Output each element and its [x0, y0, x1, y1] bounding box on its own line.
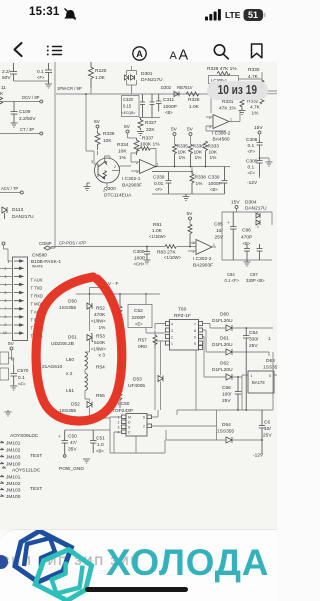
svg-text:15V: 15V — [231, 200, 240, 206]
capacitor C51 1.0 <B> — [90, 430, 105, 454]
power -12V terminal — [253, 453, 264, 459]
svg-text:M: M — [128, 416, 131, 420]
svg-text:1SS355: 1SS355 — [59, 305, 76, 311]
wire op-amp feedback right — [203, 72, 262, 113]
svg-text:C86: C86 — [242, 228, 251, 234]
svg-text:R338: R338 — [195, 175, 207, 181]
ground jumper area — [5, 410, 12, 416]
svg-text:DTC114EUA: DTC114EUA — [104, 193, 132, 199]
power 5V terminal CN580 — [2, 242, 13, 261]
resistor R330 4.7K — [248, 67, 264, 88]
svg-text:10/: 10/ — [216, 228, 223, 234]
svg-text:3: 3 — [171, 329, 173, 333]
pin 1 — [8, 260, 24, 264]
svg-text:35V: 35V — [68, 447, 77, 453]
svg-text:C64: C64 — [249, 330, 258, 336]
pin 3 — [0, 275, 23, 279]
capacitor C305 0.1 <F> — [246, 157, 269, 176]
svg-text:1.0K: 1.0K — [189, 104, 200, 110]
op-amp IC302-1 BA2903F — [120, 153, 159, 189]
diode D60 D1FL20U — [212, 312, 273, 332]
svg-text:2: 2 — [193, 250, 195, 254]
svg-text:ACV / 7P: ACV / 7P — [1, 186, 18, 191]
svg-text:<F>: <F> — [18, 382, 26, 387]
svg-text:C570: C570 — [17, 368, 29, 374]
resistor R338 1% — [152, 167, 206, 195]
svg-text:1.0: 1.0 — [97, 442, 104, 448]
node ACV / 7P — [0, 186, 23, 194]
svg-text:100/: 100/ — [222, 392, 232, 398]
svg-text:I C302-1: I C302-1 — [122, 176, 141, 182]
battery — [244, 9, 266, 21]
svg-text:2: 2 — [5, 267, 7, 271]
resistor R53 510K <1/8W> x3 — [91, 319, 122, 359]
svg-text:JM100: JM100 — [6, 462, 21, 468]
transistor Q300 DTC114EUA — [91, 151, 132, 199]
svg-text:C330: C330 — [208, 175, 220, 181]
resistor R55 — [96, 374, 122, 408]
svg-text:2200P: 2200P — [132, 315, 146, 321]
svg-text:C6: C6 — [264, 420, 270, 426]
svg-text:25V: 25V — [249, 343, 258, 349]
resistor R57 0R0 — [138, 330, 157, 410]
svg-text:JM103: JM103 — [6, 488, 21, 494]
jumper JM100 b — [0, 494, 21, 500]
capacitor block C52 2200P <E> — [128, 294, 152, 333]
svg-text:1%: 1% — [252, 111, 260, 117]
svg-text:C66: C66 — [222, 385, 231, 391]
svg-text:1%: 1% — [119, 155, 127, 161]
svg-text:1%: 1% — [99, 325, 107, 331]
svg-text:C311: C311 — [163, 97, 174, 103]
svg-text:<F>: <F> — [37, 75, 45, 80]
svg-text:15V: 15V — [254, 125, 263, 131]
svg-text:R334: R334 — [117, 142, 129, 148]
svg-text:1: 1 — [230, 118, 232, 122]
ground — [45, 81, 52, 88]
node CT / 3P — [0, 127, 43, 135]
power 5V terminal (R335) — [171, 127, 178, 145]
svg-text:5V: 5V — [171, 127, 178, 133]
capacitor C64 330/25V — [243, 327, 259, 410]
svg-text:5V: 5V — [94, 119, 101, 125]
svg-text:10K: 10K — [209, 150, 218, 156]
svg-text:3: 3 — [118, 426, 120, 430]
svg-text:2: 2 — [209, 116, 211, 120]
svg-text:3: 3 — [91, 160, 93, 164]
wire T60 to D61 — [203, 330, 227, 352]
svg-text:C51: C51 — [96, 436, 105, 442]
svg-text:5: 5 — [269, 374, 271, 378]
capacitor block C300-1 — [209, 76, 239, 84]
resistor R328 1.0K — [186, 92, 200, 110]
svg-text:DCV / 8P: DCV / 8P — [22, 95, 40, 100]
svg-text:BA4560: BA4560 — [213, 137, 230, 143]
jumper JM102 — [0, 448, 21, 454]
diode D304 DAN217U — [245, 200, 267, 229]
jumper JM101 b — [0, 475, 21, 481]
resistor R54 — [96, 346, 122, 375]
svg-text:JM102: JM102 — [6, 481, 21, 487]
block label AOYS12LDC — [2, 467, 41, 474]
power 5V terminal (R339) — [94, 119, 101, 131]
svg-text:A: A — [136, 49, 143, 59]
svg-text:470K: 470K — [94, 312, 106, 318]
svg-text:11: 11 — [1, 85, 6, 91]
svg-text:<1/10W>: <1/10W> — [164, 255, 182, 260]
svg-text:CN580: CN580 — [32, 253, 47, 259]
svg-text:I C300-2: I C300-2 — [212, 131, 231, 137]
wire output rail pair — [266, 91, 278, 94]
ground mid rail — [244, 260, 251, 266]
svg-text:R333: R333 — [208, 144, 220, 150]
capacitor C87 plates — [257, 244, 263, 260]
svg-text:21AG610: 21AG610 — [42, 364, 63, 370]
svg-text:C300: C300 — [133, 249, 145, 255]
svg-text:5V: 5V — [187, 211, 194, 217]
svg-text:47/: 47/ — [70, 440, 77, 446]
svg-text:<F>: <F> — [248, 149, 256, 154]
svg-text:A: A — [179, 47, 189, 62]
diode D64 1SS355 — [166, 422, 262, 443]
svg-text:0.1: 0.1 — [18, 375, 25, 381]
wire joining caps to ground — [14, 80, 49, 82]
svg-text:JM101: JM101 — [6, 441, 21, 447]
power 15V terminal mid — [231, 200, 240, 213]
svg-text:I C302-2: I C302-2 — [193, 256, 212, 262]
svg-text:25V: 25V — [222, 398, 231, 404]
circled A icon — [133, 47, 146, 60]
diode D52 1SS355 — [59, 399, 92, 418]
capacitor C108 value 2.2/50V — [2, 63, 17, 81]
svg-text:R81: R81 — [153, 222, 162, 228]
svg-text:<E>: <E> — [135, 322, 143, 327]
svg-text:R328: R328 — [188, 97, 200, 103]
transformer T60 RPZ-1F — [146, 307, 199, 363]
red annotation oval — [36, 277, 122, 421]
resistor R339 10K — [95, 131, 115, 150]
svg-text:DAN217U: DAN217U — [141, 77, 163, 83]
svg-text:<F>: <F> — [155, 187, 163, 192]
status bar — [0, 0, 277, 36]
svg-text:+: + — [58, 435, 61, 440]
op-amp IC302-2 BA2903F — [188, 240, 216, 269]
svg-text:JM100: JM100 — [6, 494, 21, 500]
ground Q300 — [84, 183, 91, 191]
svg-text:330/: 330/ — [249, 337, 259, 343]
jumper JM101 — [0, 441, 21, 447]
svg-text:CT / 3P: CT / 3P — [20, 127, 34, 132]
svg-text:4: 4 — [118, 431, 120, 435]
wire T60 to D62 — [203, 337, 227, 378]
power -12V label — [247, 176, 260, 186]
svg-text:C52: C52 — [134, 308, 143, 314]
capacitor C50 47/35V — [58, 430, 110, 457]
svg-text:D113: D113 — [12, 207, 23, 213]
svg-text:D51: D51 — [68, 335, 77, 341]
svg-text:DAN217U: DAN217U — [12, 214, 34, 220]
power 5V terminal (R334) — [124, 124, 131, 138]
svg-text:TEST: TEST — [30, 486, 42, 492]
svg-text:51: 51 — [248, 10, 258, 20]
resistor R337 100K 1% — [137, 136, 160, 161]
svg-text:1: 1 — [157, 163, 159, 167]
svg-text:5V: 5V — [187, 127, 194, 133]
resistor R332 4.7K 1% — [247, 96, 264, 117]
svg-text:T RXD: T RXD — [31, 294, 44, 299]
pin 6 — [0, 299, 23, 303]
svg-text:R220: R220 — [95, 68, 107, 74]
capacitor C311 1000P <B> — [156, 94, 177, 115]
svg-text:1PM-CR / 9P: 1PM-CR / 9P — [57, 86, 82, 91]
pin 5 — [0, 291, 23, 295]
wire mid rail bottom — [222, 259, 272, 261]
capacitor C570 0.1 <F> — [10, 365, 29, 390]
resistor R327 22K — [137, 118, 157, 136]
capacitor C306 0.1 <F> — [246, 137, 263, 158]
resistor R334 10K 1% — [117, 138, 139, 161]
svg-text:A: A — [170, 50, 178, 62]
search magnifier — [214, 45, 228, 59]
node DCV / 8P — [0, 95, 43, 103]
svg-text:<B>: <B> — [165, 110, 173, 115]
diode D301 DAN217U (pair) — [125, 66, 164, 94]
svg-text:R330: R330 — [248, 67, 260, 73]
inductor L50 21AG610 x2 — [42, 352, 90, 377]
svg-text:<ECQB>: <ECQB> — [122, 111, 136, 115]
svg-text:0R0: 0R0 — [138, 344, 147, 350]
svg-text:R327: R327 — [145, 120, 157, 126]
svg-text:C50: C50 — [68, 434, 77, 440]
svg-text:D52: D52 — [71, 402, 80, 408]
svg-text:10K: 10K — [103, 138, 112, 144]
svg-text:<CH>: <CH> — [134, 262, 145, 267]
resistor R336 10K 1% — [189, 144, 205, 167]
pin 8 — [0, 315, 23, 319]
svg-text:WHITE: WHITE — [32, 265, 44, 269]
capacitor C85 10/25V — [214, 212, 237, 260]
svg-text:L51: L51 — [66, 388, 74, 394]
svg-text:D50: D50 — [68, 299, 77, 305]
svg-text:7: 7 — [194, 323, 196, 327]
diode D62 D1FL20U — [212, 361, 242, 411]
svg-text:1: 1 — [118, 416, 120, 420]
svg-text:T60: T60 — [178, 307, 187, 313]
svg-text:4: 4 — [5, 283, 7, 287]
svg-text:R329 47K 1%: R329 47K 1% — [207, 66, 237, 72]
jumper JM100 — [0, 462, 21, 468]
diode D61 D1FL20U — [212, 336, 269, 357]
svg-text:1: 1 — [268, 336, 271, 342]
svg-text:47K 1%: 47K 1% — [219, 106, 237, 112]
capacitor C320b plates — [150, 94, 155, 118]
svg-text:D1FL20U: D1FL20U — [212, 318, 233, 324]
svg-text:R337: R337 — [142, 136, 154, 142]
svg-text:I C50: I C50 — [118, 401, 130, 407]
svg-text:D301: D301 — [141, 71, 153, 77]
svg-text:-12V: -12V — [253, 453, 264, 459]
resistor R333 10K 1% — [204, 141, 220, 167]
svg-text:3: 3 — [136, 170, 138, 174]
svg-text:D302: D302 — [161, 85, 172, 90]
transformer T60 right pins — [194, 322, 203, 350]
IC50 TOP243P — [112, 401, 152, 436]
svg-text:1%: 1% — [196, 181, 204, 187]
svg-text:50V: 50V — [2, 75, 11, 81]
wire bottom distribution rail — [177, 350, 273, 440]
svg-text:1: 1 — [8, 260, 10, 264]
svg-text:<1/8W>: <1/8W> — [91, 347, 106, 352]
svg-text:R55: R55 — [96, 393, 105, 399]
svg-text:1SS355: 1SS355 — [217, 429, 234, 435]
svg-text:10K: 10K — [194, 150, 203, 156]
inductor L51 — [66, 373, 90, 399]
svg-text:10K: 10K — [178, 150, 187, 156]
svg-text:25V: 25V — [215, 235, 224, 241]
svg-text:9: 9 — [194, 336, 196, 340]
diode D113 DAN217U — [2, 207, 34, 220]
svg-text:-12V: -12V — [247, 180, 258, 186]
svg-text:3: 3 — [5, 275, 7, 279]
svg-text:1: 1 — [213, 243, 215, 247]
svg-text:RPZ-1F: RPZ-1F — [174, 313, 191, 319]
wire 1PM-CR rail — [56, 93, 203, 95]
svg-text:V - F: V - F — [108, 281, 118, 287]
svg-text:1%: 1% — [210, 155, 218, 161]
svg-text:JM102: JM102 — [6, 448, 21, 454]
svg-text:RB751V: RB751V — [177, 85, 193, 90]
svg-text:TEST: TEST — [30, 453, 42, 459]
svg-text:0.1 <F>: 0.1 <F> — [225, 278, 240, 283]
svg-text:JM103: JM103 — [6, 455, 21, 461]
svg-text:DAN217U: DAN217U — [245, 206, 267, 212]
svg-text:4: 4 — [171, 323, 173, 327]
node COMP — [39, 241, 55, 250]
svg-text:C339: C339 — [153, 175, 165, 181]
svg-text:4.7K: 4.7K — [250, 105, 261, 111]
wire T60 secondary to D60 — [203, 324, 227, 329]
svg-text:<1/16W>: <1/16W> — [149, 234, 167, 239]
diode D63 1SS355 — [263, 358, 280, 371]
svg-text:UF4005: UF4005 — [128, 383, 145, 389]
svg-text:10/: 10/ — [264, 426, 271, 432]
contents list icon — [48, 47, 62, 55]
ground C51 — [83, 459, 90, 463]
svg-text:1SS355: 1SS355 — [263, 365, 277, 371]
bottom watermark banner — [0, 529, 277, 601]
svg-text:D64: D64 — [222, 422, 231, 428]
svg-text:R336: R336 — [193, 144, 205, 150]
ground C305 — [266, 162, 273, 166]
logo blue hexagon — [15, 531, 71, 582]
svg-text:5: 5 — [194, 342, 196, 346]
svg-text:100K 1%: 100K 1% — [140, 142, 160, 148]
svg-text:5: 5 — [5, 291, 7, 295]
svg-text:2.2/50V: 2.2/50V — [19, 116, 36, 122]
svg-text:BA2903F: BA2903F — [122, 183, 142, 189]
svg-text:BA178: BA178 — [252, 380, 265, 385]
capacitor block C320 0.15 <ECQB> — [122, 96, 140, 117]
logo teal hexagon — [35, 550, 91, 601]
svg-text:C84: C84 — [227, 272, 235, 277]
resistor R331 47K 1% — [219, 99, 246, 115]
svg-text:1.0K: 1.0K — [95, 75, 106, 81]
jumper JM103 TEST — [0, 453, 42, 461]
power 15V terminal top right — [254, 125, 263, 140]
svg-text:x 3: x 3 — [99, 353, 106, 359]
svg-text:R339: R339 — [103, 131, 115, 137]
jumper JM103 TEST b — [0, 486, 42, 494]
wire COMP bus vertical — [54, 62, 56, 243]
svg-text:T AUX: T AUX — [31, 278, 43, 283]
svg-text:1: 1 — [251, 374, 253, 378]
svg-text:C306: C306 — [246, 137, 258, 143]
pin 10 — [0, 331, 23, 335]
svg-text:3: 3 — [209, 125, 211, 129]
power 5V terminal R81 — [187, 211, 194, 224]
svg-text:COMP: COMP — [39, 241, 52, 246]
svg-text:T TXD: T TXD — [31, 286, 43, 291]
ground bottom rail — [183, 194, 190, 201]
svg-text:D53: D53 — [133, 377, 142, 383]
wire C320 bottom rail — [139, 117, 160, 119]
svg-text:C109: C109 — [19, 109, 31, 115]
svg-text:<B>: <B> — [210, 187, 218, 192]
svg-text:R54: R54 — [96, 365, 105, 371]
svg-text:2: 2 — [114, 165, 116, 169]
wire TOP243P connections — [90, 410, 217, 453]
svg-text:+: + — [227, 221, 230, 226]
svg-text:D63: D63 — [266, 358, 275, 364]
svg-text:D1FL20U: D1FL20U — [212, 367, 233, 373]
svg-text:0.15: 0.15 — [123, 104, 132, 109]
pin 2 — [0, 267, 23, 271]
svg-text:x 2: x 2 — [66, 371, 73, 377]
svg-text:AOYS12LDC: AOYS12LDC — [12, 468, 41, 474]
svg-text:D304: D304 — [245, 200, 257, 206]
svg-text:2.2/: 2.2/ — [2, 69, 11, 75]
svg-text:R53: R53 — [96, 334, 105, 340]
svg-text:<1/8W>: <1/8W> — [91, 319, 106, 324]
svg-text:1: 1 — [171, 342, 173, 346]
signal bars — [205, 9, 221, 21]
wire bottom rail C339/R338/C330 — [152, 193, 225, 195]
net label V - F — [103, 281, 118, 288]
svg-text:Q300: Q300 — [104, 186, 116, 192]
pin 7 — [0, 307, 23, 311]
svg-text:R52: R52 — [96, 306, 105, 312]
capacitor C320a plates — [140, 94, 145, 118]
wire top rail circled area — [76, 288, 160, 295]
svg-text:BA2903F: BA2903F — [193, 263, 213, 269]
block resonator boxes left — [0, 352, 9, 364]
svg-text:330P <B>: 330P <B> — [246, 278, 265, 283]
svg-text:R335: R335 — [177, 144, 189, 150]
svg-text:5V: 5V — [8, 341, 15, 347]
svg-text:5V: 5V — [124, 124, 131, 130]
diode D51 UDZS8.2B zener — [51, 334, 93, 353]
resistor R83 27K <1/10W> — [157, 245, 182, 260]
svg-text:D60: D60 — [220, 312, 229, 318]
svg-text:C320: C320 — [123, 97, 134, 102]
capacitor C330 1000P <B> — [208, 167, 228, 195]
capacitor C66 100/25V — [222, 377, 241, 410]
svg-text:2: 2 — [136, 161, 138, 165]
resistor R81 1.0K <1/16W> — [149, 222, 192, 247]
capacitor value 0.1 <F> — [37, 63, 52, 81]
pin 4 — [0, 283, 23, 287]
power 5V terminal (R336) — [187, 127, 194, 145]
